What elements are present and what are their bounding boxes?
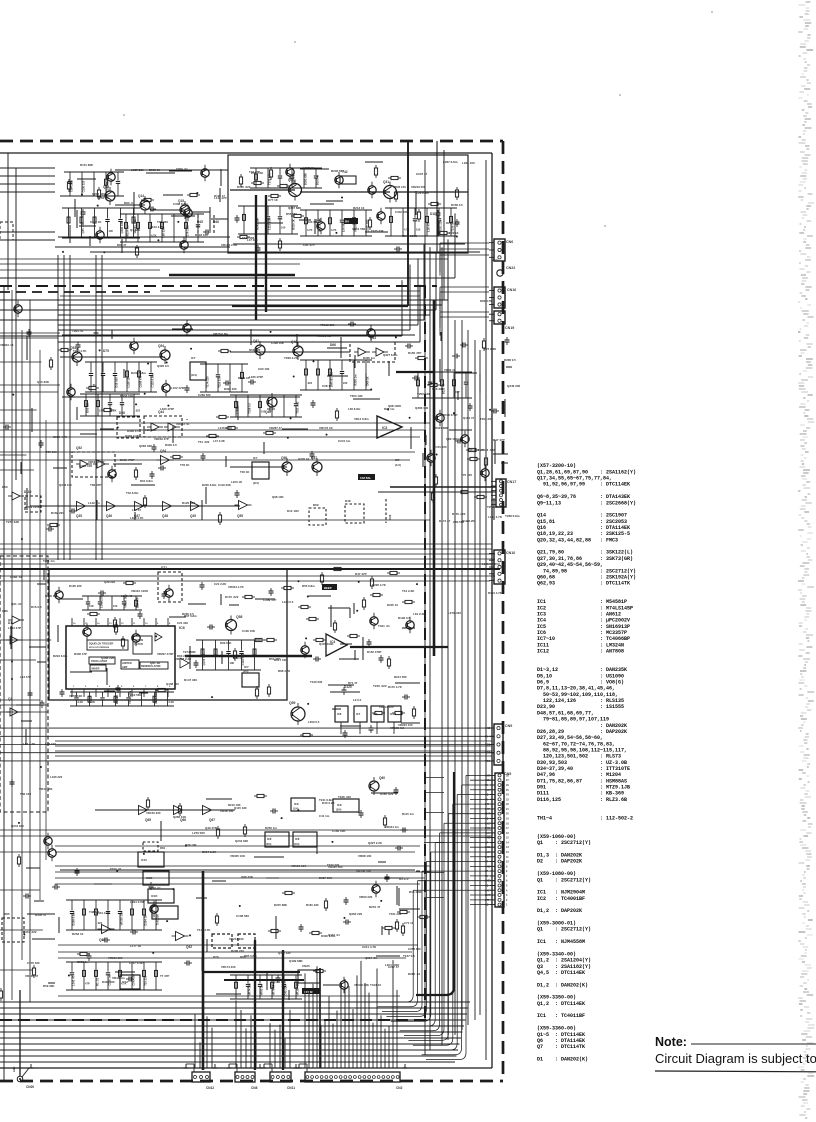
svg-text:74,89,98 : 2SC2712(Y: 74,89,98 : 2SC2712(Y) [537,568,636,574]
svg-text:62~67,70,72~74,76,78,83,: 62~67,70,72~74,76,78,83, [537,741,615,747]
svg-text:IC1 : M54581P: IC1 : M54581P [537,599,627,605]
svg-text:Q1,2 : 2SA1204(Y): Q1,2 : 2SA1204(Y) [537,958,591,964]
svg-text:Q1 : 2SC2712(Y): Q1 : 2SC2712(Y) [537,840,591,846]
svg-text:(X59-3340-00): (X59-3340-00) [537,951,576,957]
svg-text:D34~37,39,40 : ITT310T: D34~37,39,40 : ITT310TE [537,766,630,772]
svg-text:Q1 : 2SC2712(Y): Q1 : 2SC2712(Y) [537,927,591,933]
svg-text:D1~3,12 : DAN235K: D1~3,12 : DAN235K [537,667,627,673]
svg-text:Q1,28,61,69,87,90 : 2SA1162: Q1,28,61,69,87,90 : 2SA1162(Y) [537,469,636,475]
svg-text:IC1 : NJM2904M: IC1 : NJM2904M [537,890,585,896]
svg-text:Q18,19,22,23 : 2SK125-: Q18,19,22,23 : 2SK125-5 [537,531,630,537]
svg-text:IC7~10 : TC4066B: IC7~10 : TC4066BP [537,636,630,642]
svg-text:Q6~8,35~39,76 : DTA143E: Q6~8,35~39,76 : DTA143EK [537,494,630,500]
svg-text:Q62,93 : DTC114T: Q62,93 : DTC114TK [537,581,630,587]
svg-text:D2 : DAP202K: D2 : DAP202K [537,859,582,865]
svg-text:Q27,30,31,78,86 : 3SK73(G: Q27,30,31,78,86 : 3SK73(GR) [537,556,633,562]
svg-text:(X59-1060-00): (X59-1060-00) [537,834,576,840]
svg-text:(X59-3360-00): (X59-3360-00) [537,1026,576,1032]
svg-text:120,123,501,502 : RLS73: 120,123,501,502 : RLS73 [537,754,621,760]
svg-text:: DAN202K: : DAN202K [537,723,627,729]
svg-text:Q15,81 : 2SC2053: Q15,81 : 2SC2053 [537,519,627,525]
svg-text:IC2 : M74LS14: IC2 : M74LS145P [537,605,633,611]
svg-text:50~53,99~102,109,110,118,: 50~53,99~102,109,110,118, [537,692,618,698]
svg-text:IC2 : TC4001BF: IC2 : TC4001BF [537,896,585,902]
svg-text:(X59-3350-00): (X59-3350-00) [537,995,576,1001]
svg-text:Q1~5 : DTC114EK: Q1~5 : DTC114EK [537,1032,585,1038]
svg-text:88,92,95,98,108,112~115,117,: 88,92,95,98,108,112~115,117, [537,747,627,753]
svg-text:D5,10 : US1090: D5,10 : US1090 [537,673,624,679]
svg-text:D48,57,61,68,69,77,: D48,57,61,68,69,77, [537,710,594,716]
svg-text:Q6 : DTA114EK: Q6 : DTA114EK [537,1038,585,1044]
svg-text:Q1,2 : DTC114EK: Q1,2 : DTC114EK [537,1001,585,1007]
svg-text:D91 : MTZ9.1J: D91 : MTZ9.1JB [537,785,630,791]
svg-text:Q29,40~42,45~54,56~59,: Q29,40~42,45~54,56~59, [537,562,603,568]
svg-text:D1,3 : DAN202K: D1,3 : DAN202K [537,853,582,859]
svg-text:TH1~4 : 112-502: TH1~4 : 112-502-2 [537,815,633,821]
svg-text:IC12 : AN7808: IC12 : AN7808 [537,649,624,655]
svg-text:D47,96 : M1204: D47,96 : M1204 [537,772,621,778]
svg-text:D30,93,503 : UZ-3.0B: D30,93,503 : UZ-3.0B [537,760,627,766]
svg-text:Q14 : 2SC1907: Q14 : 2SC1907 [537,513,627,519]
svg-text:Q1 : 2SC2712(Y): Q1 : 2SC2712(Y) [537,877,591,883]
svg-text:(X59-1080-00): (X59-1080-00) [537,871,576,877]
svg-text:D6,9 : VO8(G): D6,9 : VO8(G) [537,680,624,686]
svg-text:IC4 : μPC2002: IC4 : μPC2002V [537,618,630,624]
svg-text:(X59-3000-01): (X59-3000-01) [537,921,576,927]
svg-text:79~81,85,89,97,107,119: 79~81,85,89,97,107,119 [537,717,609,723]
svg-text:Q21,79,80 : 3SK122(: Q21,79,80 : 3SK122(L) [537,550,633,556]
svg-text:D1,2 : DAP202K: D1,2 : DAP202K [537,908,582,914]
svg-text:Q16 : DTA114E: Q16 : DTA114EK [537,525,630,531]
svg-text:Q3 : 2SA1182(Y): Q3 : 2SA1182(Y) [537,964,591,970]
svg-text:122,124,126 : RLS135: 122,124,126 : RLS135 [537,698,624,704]
svg-text:D1 : DAN202(K): D1 : DAN202(K) [537,1056,588,1062]
svg-text:Q17,34,55,65~67,75,77,84,: Q17,34,55,65~67,75,77,84, [537,476,612,482]
svg-text:91,92,96,97,99 : DTC114EK: 91,92,96,97,99 : DTC114EK [537,482,630,488]
svg-text:Q7 : DTC114TK: Q7 : DTC114TK [537,1044,585,1050]
svg-text:Q20,32,43,44,82,88 : FMC3: Q20,32,43,44,82,88 : FMC3 [537,537,618,543]
svg-text:D111 : KB-369: D111 : KB-369 [537,791,624,797]
svg-text:D27,33,49,54~56,58~60,: D27,33,49,54~56,58~60, [537,735,603,741]
svg-text:D7,8,11,13~20,38,41,45,46,: D7,8,11,13~20,38,41,45,46, [537,686,615,692]
svg-text:IC6 : MC3357P: IC6 : MC3357P [537,630,627,636]
svg-text:IC1 : NJM4558M: IC1 : NJM4558M [537,939,585,945]
svg-text:Q9~11,13 : 2SC2668: Q9~11,13 : 2SC2668(Y) [537,500,636,506]
svg-text:Q4,5 : DTC114EK: Q4,5 : DTC114EK [537,970,585,976]
svg-text:IC3 : AN612: IC3 : AN612 [537,612,621,618]
svg-text:IC11 : LM324N: IC11 : LM324N [537,642,624,648]
svg-text:IC1 : TC4011BF: IC1 : TC4011BF [537,1013,585,1019]
svg-text:Q60,68 : 2SK192A: Q60,68 : 2SK192A(Y) [537,574,636,580]
svg-text:(X57-3200-10): (X57-3200-10) [537,463,576,469]
svg-text:D71,75,82,86,87 : HSM88AS: D71,75,82,86,87 : HSM88AS [537,778,627,784]
svg-text:D1,2 : DAN202(K): D1,2 : DAN202(K) [537,982,588,988]
svg-text:D26,28,29 : DAP202K: D26,28,29 : DAP202K [537,729,627,735]
svg-text:D116,125 : RLZ3.6B: D116,125 : RLZ3.6B [537,797,627,803]
svg-text:D23,90 : 1S1555: D23,90 : 1S1555 [537,704,624,710]
svg-text:IC5 : SN16913: IC5 : SN16913P [537,624,630,630]
